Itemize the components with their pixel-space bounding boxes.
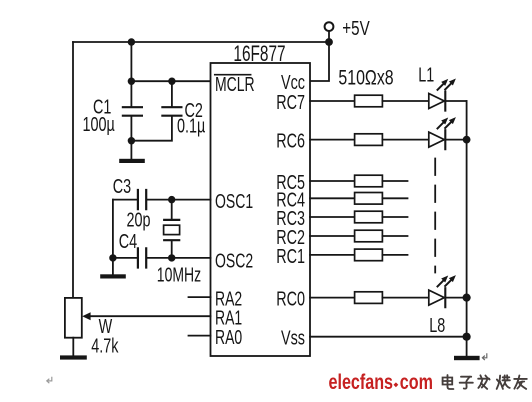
svg-text:RC7: RC7: [276, 91, 305, 114]
LED L8 emission arrows: [438, 280, 452, 287]
svg-text:10MHz: 10MHz: [157, 263, 201, 286]
svg-text:OSC2: OSC2: [215, 249, 253, 272]
potentiometer W body: [65, 298, 82, 338]
capacitor C2 (leads): [131, 81, 172, 141]
wire: R3 output stub: [382, 180, 407, 182]
junction: OSC2 / C4 ground branch: [109, 254, 116, 261]
junction: C1/C2 ground node: [128, 137, 135, 144]
svg-text:RC6: RC6: [276, 129, 305, 152]
watermark: Chinese char 子: [460, 377, 473, 389]
op IC U1 16F877 body: [211, 63, 311, 356]
wire: RC1 to R7: [310, 254, 355, 256]
wire: RC2 to R6: [310, 235, 355, 237]
resistor R4: [355, 193, 383, 205]
LED L2 triangle: [429, 132, 445, 147]
wire: MCLR line to IC: [131, 80, 210, 82]
svg-text:L1: L1: [418, 63, 434, 86]
capacitor C1 (leads): [130, 81, 132, 141]
resistor R7: [355, 249, 383, 261]
wire: R5 output stub: [382, 216, 407, 218]
ground: C1/C2: [119, 159, 145, 163]
wire: Vss line: [310, 336, 467, 338]
wire: drop from top rail to MCLR line: [130, 42, 132, 81]
wire: OSC1 line: [113, 199, 211, 201]
wire: RC0 to R8: [310, 297, 355, 299]
wire: R8 to LED L8: [382, 297, 428, 299]
LED L1 triangle: [429, 94, 445, 109]
crystal Y1 body: [164, 225, 180, 234]
capacitor C1 plates: [123, 107, 142, 116]
resistor R3: [355, 175, 383, 187]
watermark: Chinese char 烧: [497, 375, 510, 389]
junction: top rail / +5V: [325, 38, 333, 46]
wire: oscillator ground lead: [112, 258, 114, 274]
junction: MCLR line / C1: [128, 78, 135, 85]
resistor R8: [355, 292, 383, 304]
svg-text:510Ωx8: 510Ωx8: [338, 66, 393, 90]
wire: top supply rail: [73, 41, 329, 43]
wire: L8 to right rail: [445, 297, 466, 299]
wire: +5V terminal stub: [328, 31, 330, 42]
wire: Vcc feed from +5V node: [310, 42, 329, 81]
svg-text:+5V: +5V: [342, 17, 369, 40]
junction: top rail / C1 branch: [128, 38, 135, 45]
svg-text:elecfans: elecfans: [329, 371, 394, 395]
wire: RC7 to R1: [310, 100, 355, 102]
wire: RA0 stub: [189, 335, 211, 337]
wire: C1 node to ground: [130, 141, 132, 159]
wire: left vertical rail: [72, 42, 74, 298]
wire: RA2 stub: [189, 296, 211, 298]
LED L1 cathode bar: [444, 92, 446, 111]
wire: potentiometer bottom lead: [72, 338, 74, 356]
wire: R1 to LED L1: [382, 100, 428, 102]
svg-text:RC0: RC0: [276, 287, 305, 310]
svg-text:16F877: 16F877: [233, 42, 285, 66]
LED L8 triangle: [429, 290, 445, 305]
wiper arrow of potentiometer: [82, 312, 90, 320]
watermark: Chinese char 发: [478, 375, 489, 389]
wire: oscillator left vertical: [112, 200, 114, 258]
resistor R1: [355, 95, 383, 107]
wire: L2 to right rail: [445, 139, 466, 141]
crystal Y1 leads: [171, 200, 173, 258]
wire: RC4 to R4: [310, 197, 355, 199]
ground: right rail: [454, 356, 480, 360]
ground: potentiometer: [60, 355, 87, 359]
junction: right rail at L2: [463, 136, 471, 144]
svg-text:0.1µ: 0.1µ: [177, 114, 205, 137]
resistor R5: [355, 211, 383, 223]
svg-text:Vss: Vss: [281, 326, 305, 349]
watermark: Chinese char 电: [443, 375, 454, 389]
svg-text:OSC1: OSC1: [215, 189, 253, 212]
svg-text:L8: L8: [429, 314, 445, 337]
resistor R6: [355, 230, 383, 242]
svg-text:20p: 20p: [127, 208, 151, 231]
svg-text:com: com: [400, 371, 433, 395]
svg-text:C4: C4: [119, 230, 138, 253]
watermark: Chinese char 友: [514, 376, 527, 389]
wire: RC6 to R2: [310, 139, 355, 141]
wire: R2 to LED L2: [382, 139, 428, 141]
capacitor C4 plates: [138, 248, 146, 267]
LED L2 emission arrows: [438, 122, 452, 128]
terminal: +5V open circle: [325, 22, 334, 31]
wire: R4 output stub: [382, 197, 407, 199]
mark: paragraph return glyph (right): [482, 354, 486, 360]
mark: paragraph return glyph (bottom left): [47, 377, 52, 382]
LED L8 cathode bar: [444, 288, 446, 307]
svg-text:4.7k: 4.7k: [91, 334, 118, 357]
resistor R2: [355, 134, 383, 146]
wire: RC5 to R3: [310, 180, 355, 182]
svg-text:MCLR: MCLR: [215, 72, 255, 95]
wire: RA1 to wiper: [90, 315, 211, 317]
svg-text:C3: C3: [113, 175, 131, 198]
LED L1 emission arrows: [438, 83, 452, 90]
LED L2 cathode bar: [444, 130, 446, 149]
svg-text:100µ: 100µ: [83, 113, 115, 136]
wire: right vertical rail: [466, 101, 468, 356]
wire: OSC2 line: [113, 257, 211, 259]
svg-text:RA0: RA0: [215, 325, 242, 348]
capacitor C3 plates: [138, 190, 146, 209]
junction: OSC2 / crystal: [168, 254, 175, 261]
ground: oscillator: [100, 274, 126, 278]
junction: right rail at L8: [463, 294, 471, 302]
capacitor C2 plates: [162, 107, 181, 116]
wire: RC3 to R5: [310, 216, 355, 218]
junction: right rail at Vss: [463, 333, 471, 341]
junction: OSC1 / crystal: [168, 196, 175, 203]
wire: R6 output stub: [382, 235, 407, 237]
wire: L1 to right rail: [445, 100, 466, 102]
wire: R7 output stub: [382, 254, 407, 256]
junction: MCLR line / C2: [168, 78, 175, 85]
svg-text:RC1: RC1: [276, 245, 305, 268]
crystal Y1 electrode plates: [164, 220, 179, 240]
ellipsis: dashed continuation line: [434, 159, 436, 273]
